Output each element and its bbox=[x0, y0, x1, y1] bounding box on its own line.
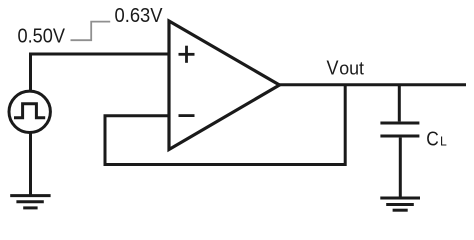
op-amp + input pin marker bbox=[179, 46, 195, 63]
svg-text:out: out bbox=[339, 58, 364, 78]
step waveform annotation bbox=[71, 22, 111, 41]
svg-text:0.63V: 0.63V bbox=[115, 5, 164, 27]
svg-text:C: C bbox=[426, 128, 439, 150]
capacitor CL bbox=[380, 85, 419, 198]
wire feedback loop: - input, left, down, bottom, up to output bbox=[105, 86, 345, 165]
svg-text:0.50V: 0.50V bbox=[18, 26, 66, 48]
op-amp - input pin marker bbox=[179, 114, 195, 117]
ground (left) bbox=[10, 196, 50, 208]
wire output bbox=[277, 83, 466, 86]
ground (right) bbox=[380, 198, 420, 210]
wire vertical source lead bbox=[29, 53, 32, 92]
svg-text:V: V bbox=[327, 57, 340, 79]
svg-text:L: L bbox=[440, 133, 447, 148]
pulse source V1 bbox=[9, 91, 50, 132]
wire source top lead to op-amp + input bbox=[29, 53, 171, 56]
op-amp U1 bbox=[169, 21, 280, 150]
wire source bottom lead bbox=[29, 132, 32, 195]
